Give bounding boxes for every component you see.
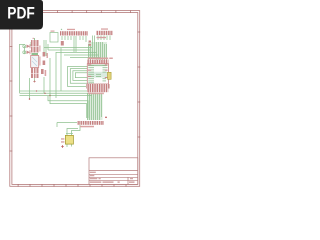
svg-text:PDF: PDF [7,5,35,23]
